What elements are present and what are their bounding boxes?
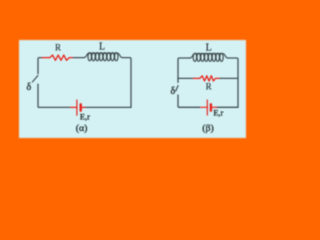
resistor R (alpha) <box>42 55 73 60</box>
svg-text:E,r: E,r <box>80 112 90 121</box>
wire: beta bottom left segment + left side lower <box>178 95 200 107</box>
switch blade (beta) <box>176 86 178 91</box>
switch blade (alpha) <box>33 76 38 82</box>
svg-text:R: R <box>206 81 212 91</box>
wire: beta middle branch left <box>178 77 194 79</box>
wire: beta middle branch right <box>220 77 238 79</box>
battery E,r (alpha) <box>70 100 85 115</box>
wire: alpha bottom left segment + left side lower <box>38 84 70 107</box>
wire: alpha bottom right segment <box>85 106 131 108</box>
svg-text:L: L <box>99 42 105 53</box>
wire: alpha top-right corner + right side <box>122 58 131 108</box>
inductor L (beta) <box>190 53 228 61</box>
battery E,r (beta) <box>200 100 217 115</box>
inductor L (alpha) <box>84 53 122 61</box>
cyan panel <box>19 40 246 138</box>
wire: beta top-right corner + right side <box>228 58 238 107</box>
svg-text:R: R <box>55 42 61 52</box>
svg-text:δ: δ <box>171 86 176 97</box>
svg-text:(α): (α) <box>76 123 88 134</box>
wire: alpha top middle segment <box>73 57 84 59</box>
svg-text:δ: δ <box>27 82 32 93</box>
wire: alpha top-left segment <box>38 58 42 74</box>
wire: beta left side below junction <box>177 78 179 82</box>
resistor R (beta) <box>194 76 221 81</box>
svg-text:L: L <box>206 43 212 54</box>
svg-text:E,r: E,r <box>213 108 223 117</box>
wire: beta bottom right segment <box>217 106 238 108</box>
svg-text:(β): (β) <box>202 123 214 134</box>
wire: beta top-left segment <box>178 58 190 78</box>
